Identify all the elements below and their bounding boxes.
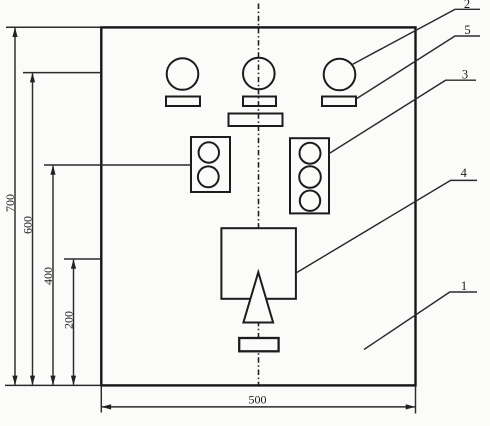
- svg-text:2: 2: [464, 0, 470, 11]
- dimension line 600: [30, 73, 35, 386]
- leader 4 (to instrument square): [296, 180, 477, 273]
- svg-text:4: 4: [461, 166, 468, 180]
- svg-text:3: 3: [462, 67, 468, 81]
- leader 1 (to panel face): [364, 292, 477, 350]
- svg-text:1: 1: [461, 279, 467, 293]
- leader 5 (to right label plate): [356, 36, 480, 99]
- dimension line 500: [101, 404, 415, 409]
- svg-text:200: 200: [61, 311, 75, 329]
- extension line 200 ref: [64, 258, 101, 260]
- button block left (2 buttons): [191, 137, 230, 192]
- extension line top (700 ref / panel top): [6, 26, 101, 28]
- svg-text:600: 600: [20, 216, 34, 234]
- panel outline: [101, 27, 415, 385]
- lamp circle left: [167, 58, 199, 90]
- dimension line 700: [12, 27, 17, 385]
- lamp circle center: [243, 58, 275, 90]
- svg-text:700: 700: [3, 194, 17, 212]
- bottom small plate: [239, 338, 278, 351]
- svg-text:500: 500: [249, 393, 267, 407]
- button block right (3 buttons): [290, 138, 329, 213]
- bottom extension line right: [415, 385, 417, 413]
- extension line 400 ref: [44, 164, 191, 166]
- dimension line 400: [50, 165, 55, 385]
- instrument square: [221, 228, 296, 299]
- svg-text:5: 5: [464, 23, 470, 37]
- svg-text:400: 400: [41, 267, 55, 285]
- baseline extension bottom-left: [5, 384, 101, 386]
- label plate left: [166, 97, 200, 107]
- label plate right: [322, 97, 356, 107]
- lamp circle right: [324, 59, 356, 91]
- pointer triangle: [243, 272, 273, 322]
- leader 3 (to right button block): [330, 80, 476, 153]
- bottom extension line left: [100, 385, 102, 412]
- wide plate under center lamp: [229, 114, 283, 127]
- leader 2 (to right lamp): [352, 9, 480, 64]
- dimension line 200: [71, 259, 76, 385]
- extension line 600 ref: [23, 72, 101, 74]
- centerline (vertical dash-dot axis): [258, 4, 260, 385]
- label plate center: [243, 97, 276, 107]
